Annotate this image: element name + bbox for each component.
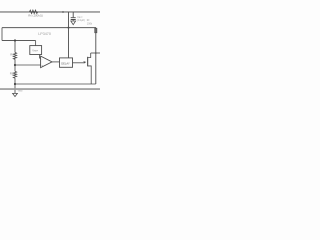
wire delay output to gate — [73, 62, 84, 64]
resistor R1 — [14, 41, 16, 53]
node junction on rail — [62, 11, 64, 13]
wire R2 down to ground — [14, 78, 16, 93]
resistor RP body — [95, 28, 97, 33]
op-amp comparator — [41, 56, 52, 68]
wire VCC top rail — [0, 11, 100, 13]
node VDD junction — [68, 27, 70, 29]
node RESET junction — [95, 52, 97, 54]
svg-text:-: - — [42, 58, 43, 61]
capacitor CB plates — [71, 18, 76, 20]
wire internal ground net — [15, 83, 96, 85]
svg-text:GND: GND — [18, 90, 23, 92]
wire to comparator + input — [15, 64, 41, 66]
voltage reference VREF box — [30, 46, 42, 55]
transistor Q1 source — [88, 66, 91, 84]
wire Vref to comparator input — [40, 55, 41, 59]
wire left vertical — [1, 28, 3, 41]
svg-text:LP3470: LP3470 — [38, 32, 51, 36]
svg-text:(0.1µF): (0.1µF) — [77, 19, 85, 22]
wire GND rail — [0, 88, 100, 90]
ground symbol — [13, 93, 18, 96]
resistor RP pull-up wire — [95, 28, 97, 84]
transistor Q1 channel bar — [87, 57, 88, 67]
svg-text:R2: R2 — [10, 72, 14, 76]
node divider tap — [14, 39, 16, 41]
wire sense net horizontal — [2, 40, 36, 42]
node divider bottom junction — [14, 83, 16, 85]
node divider mid junction — [14, 64, 16, 66]
wire RESET output — [91, 52, 100, 54]
wire drop to Vref box — [35, 41, 37, 46]
svg-text:100k: 100k — [87, 22, 93, 25]
wire cap to ground — [72, 20, 74, 21]
svg-text:R1: R1 — [10, 53, 14, 57]
resistor RS in top rail — [30, 10, 38, 13]
capacitor CB stub — [72, 12, 74, 17]
svg-text:DELAY: DELAY — [61, 61, 70, 65]
resistor R2 — [13, 71, 16, 78]
wire VDD net horizontal — [2, 27, 96, 29]
wire VDD drop — [68, 12, 70, 58]
gate arrow — [84, 61, 87, 64]
transistor Q1 drain — [88, 53, 91, 58]
delay block — [60, 58, 73, 67]
wire comparator output — [52, 61, 60, 63]
wire R1 to R2 — [14, 59, 16, 71]
ground (cap bypass) — [71, 21, 76, 25]
